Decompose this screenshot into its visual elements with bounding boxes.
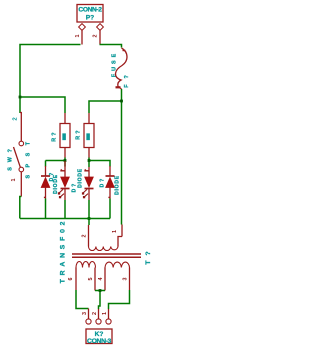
switch SW1 SPST	[8, 113, 32, 197]
wire top left	[20, 45, 81, 114]
svg-text:2: 2	[82, 235, 88, 238]
svg-text:1: 1	[75, 35, 81, 38]
wire group1 top tee	[46, 160, 66, 162]
svg-text:P?: P?	[86, 14, 94, 21]
svg-text:CONN-2: CONN-2	[78, 7, 102, 14]
diode D4	[106, 166, 121, 199]
resistor R1	[52, 113, 71, 158]
svg-text:CONN-3: CONN-3	[87, 338, 112, 345]
wire bottom bus	[20, 218, 110, 220]
svg-text:R?: R?	[76, 128, 82, 140]
svg-text:SW?: SW?	[8, 144, 14, 170]
resistor R2	[76, 113, 95, 158]
svg-text:2: 2	[92, 312, 98, 315]
wire center tap	[95, 290, 105, 292]
svg-text:T?: T?	[145, 246, 152, 264]
connector P1 pin 1 diamond	[75, 24, 85, 45]
connector P1 pin 2 diamond	[93, 24, 104, 45]
wire group2 top tee	[89, 158, 110, 168]
connector P1 CONN-2	[77, 5, 103, 23]
junction	[120, 100, 123, 103]
wire D3 bottom	[88, 200, 90, 225]
diode D3 (LED reversed)	[78, 167, 106, 200]
svg-text:DIODE: DIODE	[115, 175, 121, 195]
svg-text:1: 1	[112, 230, 118, 233]
connector K1 CONN-3	[82, 309, 112, 345]
svg-text:4: 4	[98, 278, 104, 281]
svg-text:3: 3	[82, 312, 88, 315]
fuse F1	[112, 48, 131, 89]
wire left tap to R1	[20, 97, 65, 113]
svg-text:FUSE: FUSE	[112, 51, 118, 77]
svg-text:3: 3	[123, 278, 129, 281]
svg-text:1: 1	[11, 179, 17, 182]
wire sec left out	[76, 290, 89, 309]
transformer T1 TRANSF02	[60, 218, 153, 291]
svg-text:F?: F?	[124, 69, 130, 88]
svg-text:1: 1	[102, 312, 108, 315]
junction	[19, 96, 22, 99]
wire D4 bottom	[109, 199, 111, 219]
svg-text:SPST: SPST	[26, 134, 32, 178]
wire switch to bus	[20, 197, 22, 219]
svg-text:5: 5	[88, 278, 94, 281]
svg-text:2: 2	[93, 35, 99, 38]
wire right rail	[121, 89, 123, 225]
svg-text:TRANSF02: TRANSF02	[60, 218, 67, 284]
diode D2 (LED reversed)	[58, 161, 78, 200]
wire tap to R2	[89, 101, 122, 113]
wire sec right out	[109, 290, 130, 309]
svg-text:2: 2	[13, 118, 19, 121]
wire top right	[100, 45, 122, 48]
svg-text:DIODE: DIODE	[53, 174, 59, 194]
svg-text:6: 6	[68, 278, 74, 281]
wire D1 bottom	[45, 199, 47, 219]
diode D1	[41, 166, 59, 199]
svg-text:DIODE: DIODE	[78, 168, 84, 188]
svg-text:R?: R?	[52, 130, 58, 142]
wire D2 bottom	[64, 200, 66, 219]
svg-text:D?: D?	[100, 177, 106, 188]
